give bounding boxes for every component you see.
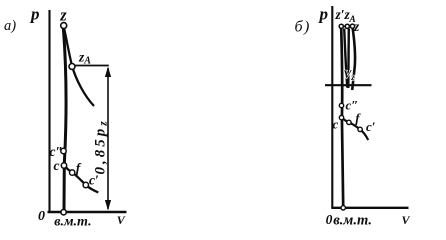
p axis (a) [48, 10, 50, 212]
svg-text:в.м.т.: в.м.т. [54, 215, 91, 230]
combustion line c-z (a) [63, 27, 66, 210]
point c'' (a) [61, 148, 66, 153]
point c (a) [61, 163, 66, 168]
svg-text:p: p [318, 5, 329, 24]
svg-text:а): а) [4, 18, 16, 34]
V axis (b) [331, 207, 408, 209]
point c' (b) [358, 127, 362, 131]
svg-text:z: z [353, 19, 360, 34]
point f (b) [347, 120, 351, 124]
point zA (b) [345, 24, 349, 28]
point c' (a) [83, 182, 88, 187]
svg-text:0: 0 [38, 209, 45, 224]
point zA (a) [69, 63, 75, 69]
TDC point on V axis (a) [61, 209, 66, 214]
point z (b) [350, 24, 354, 28]
svg-text:б): б) [295, 19, 311, 36]
svg-text:0: 0 [326, 212, 333, 227]
compression curve c-f-c' (b) [342, 118, 369, 140]
svg-text:c: c [332, 117, 338, 132]
line zA down to Vz (b) [344, 29, 347, 88]
point f (a) [69, 170, 74, 175]
compression curve c-f-c' (a) [64, 165, 98, 192]
point z' (b) [339, 24, 343, 28]
point z (a) [61, 23, 67, 29]
svg-text:c′: c′ [366, 119, 376, 134]
peak top line z'-zA-z (b) [341, 25, 352, 27]
svg-text:в.м.т.: в.м.т. [333, 213, 372, 229]
point c (b) [339, 115, 343, 119]
TDC point on V axis (b) [341, 206, 345, 210]
dimension line 0.85pz (a) [107, 68, 109, 209]
svg-text:c: c [53, 158, 59, 173]
line z down to Vz (b) [347, 29, 350, 89]
V axis (a) [47, 211, 126, 213]
combustion line c-z' (b) [341, 28, 343, 206]
svg-text:c″: c″ [49, 144, 62, 159]
p axis (b) [331, 6, 333, 208]
svg-text:0,85pz: 0,85pz [92, 118, 109, 174]
dimension arrow up (a) [105, 66, 111, 77]
svg-text:c′: c′ [89, 172, 99, 187]
expansion curve z-zA (a) [64, 27, 94, 106]
svg-text:V: V [117, 213, 126, 227]
dimension arrow down (a) [105, 200, 111, 211]
point c'' (b) [339, 103, 343, 107]
svg-text:V: V [401, 213, 410, 227]
svg-text:p: p [29, 4, 40, 23]
expansion curve from z (b) [352, 29, 355, 91]
svg-text:z: z [59, 5, 67, 24]
horizontal line at zA level (a) [74, 64, 109, 66]
horizontal cut line (b) [325, 84, 372, 86]
